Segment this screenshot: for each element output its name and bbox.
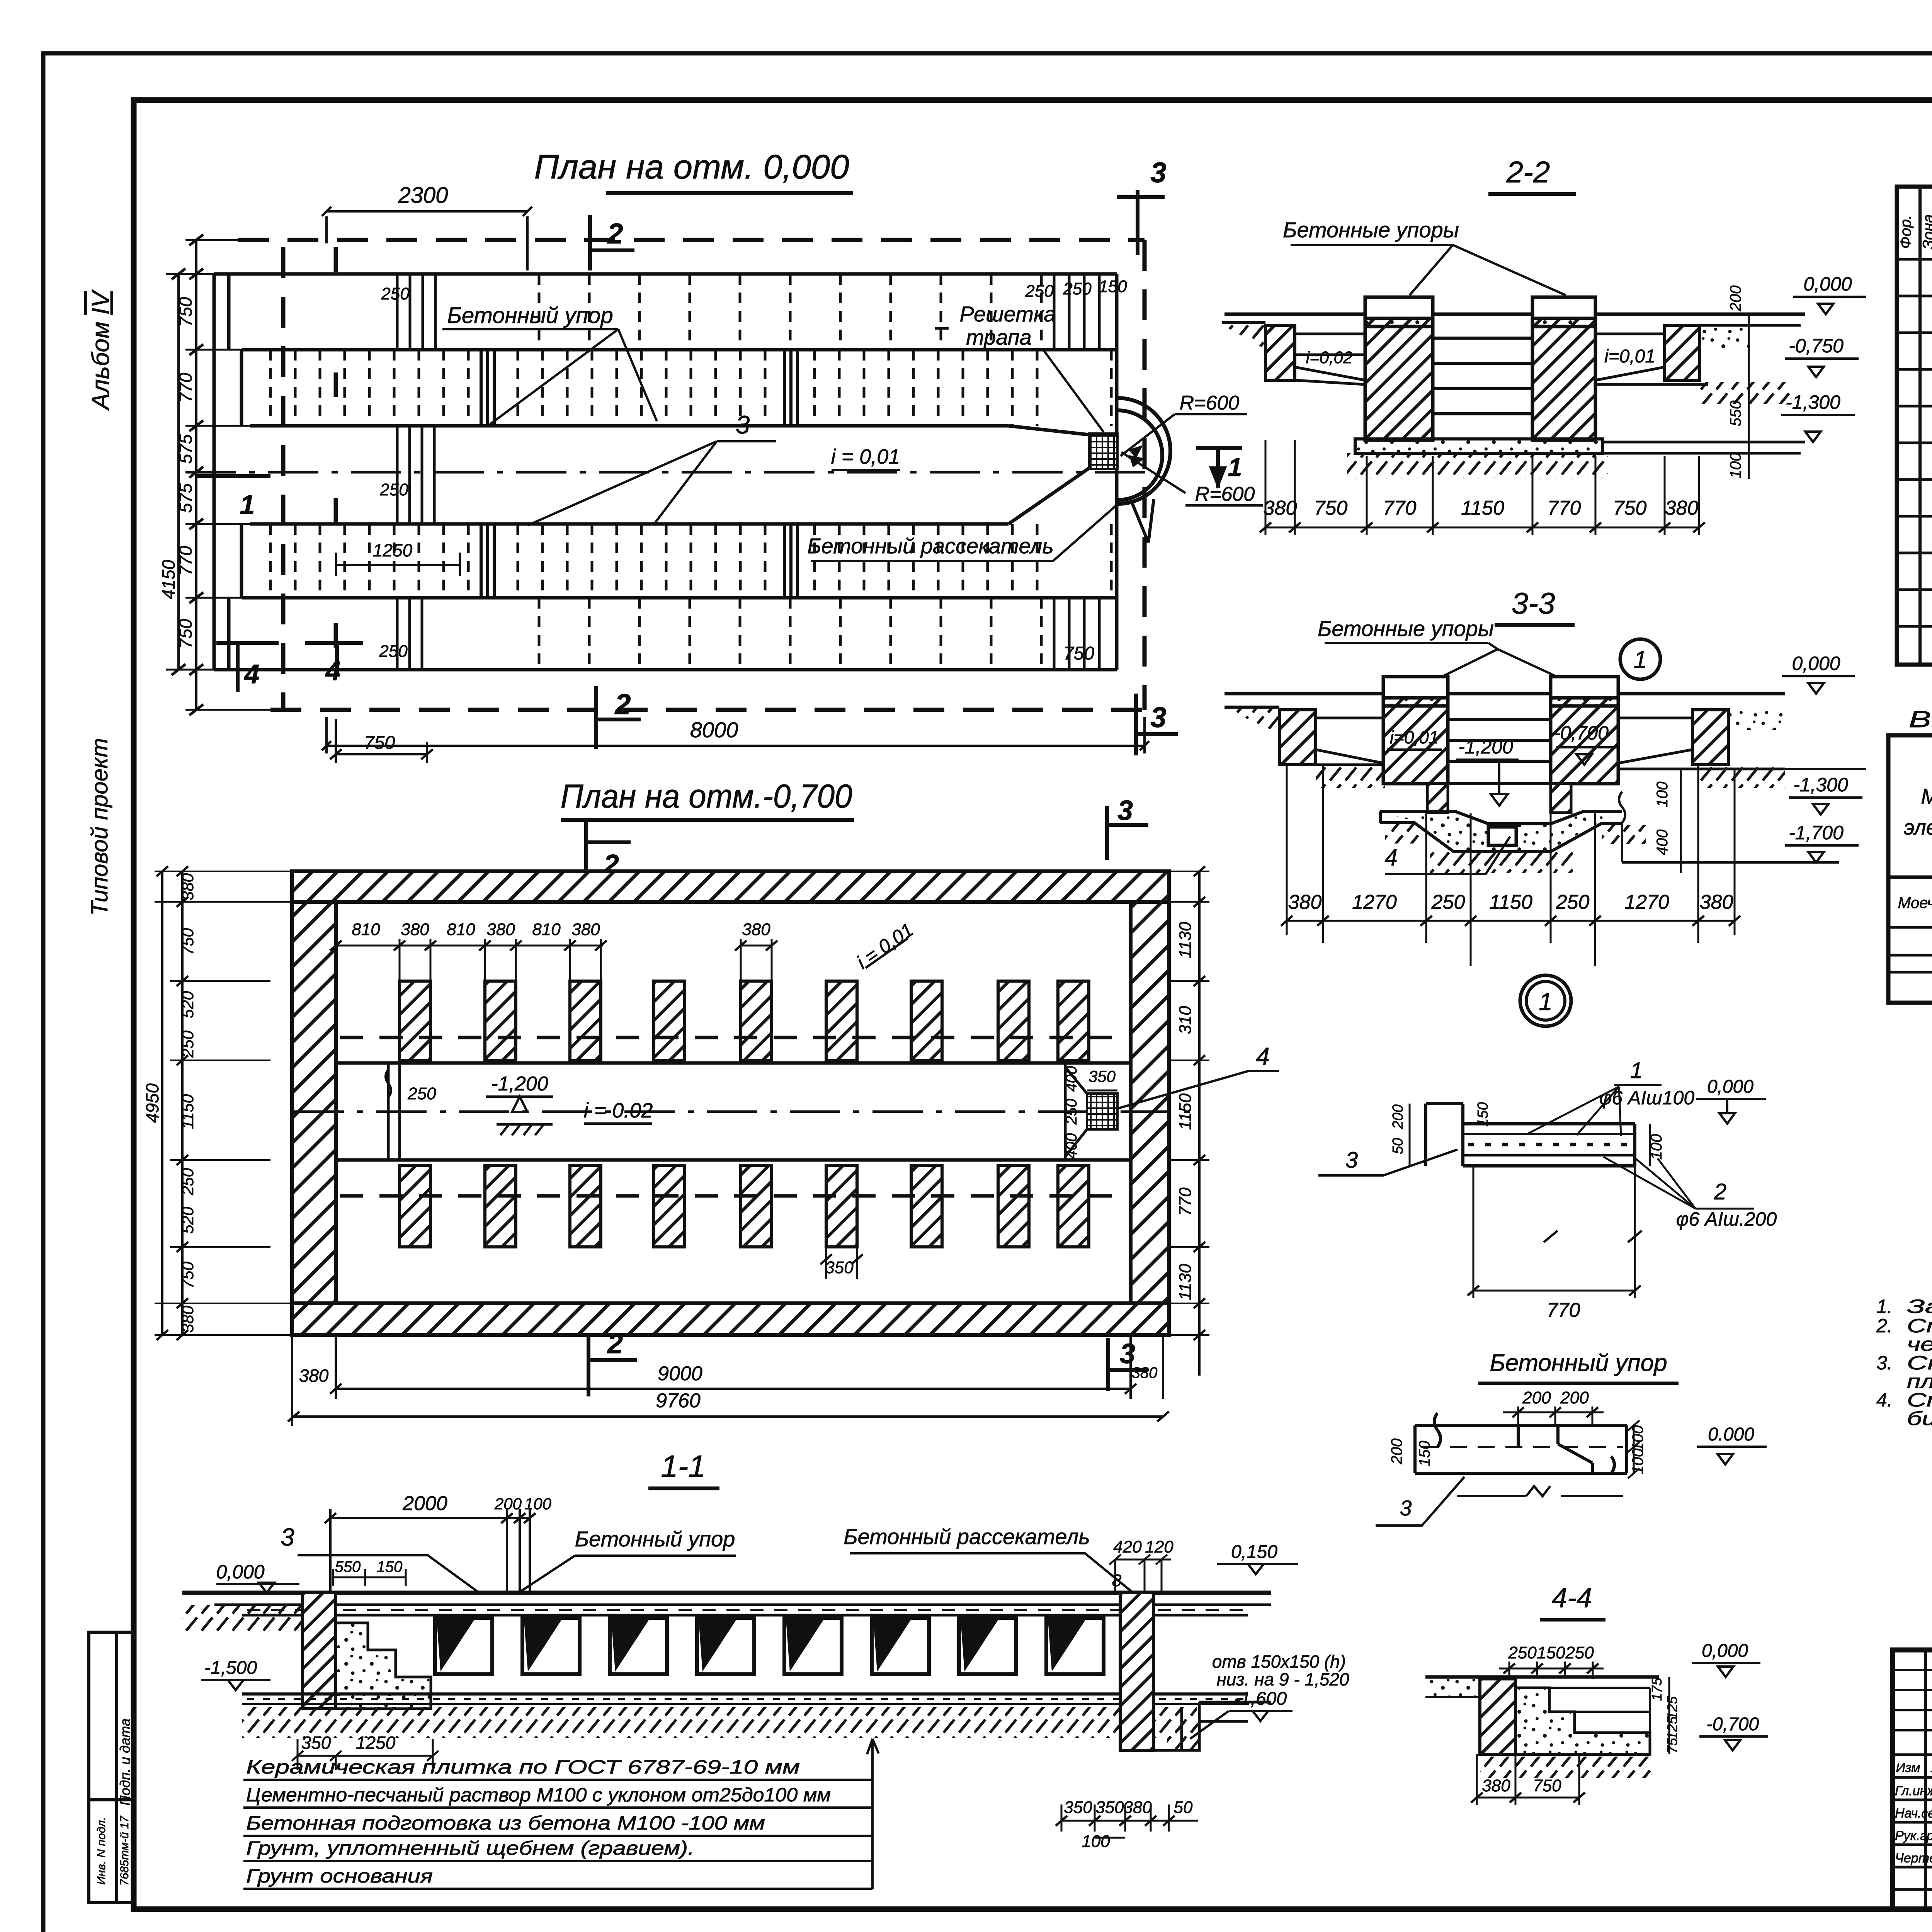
svg-text:810: 810 (447, 920, 475, 939)
upor dims 200 200 (1503, 1406, 1604, 1425)
plan1 funnel to grate (1009, 426, 1089, 524)
svg-text:Марка: Марка (1921, 784, 1932, 808)
svg-text:3: 3 (281, 1523, 294, 1551)
svg-text:Бетонный упор: Бетонный упор (575, 1527, 735, 1551)
svg-text:0,000: 0,000 (1702, 1641, 1748, 1661)
svg-text:1: 1 (1228, 453, 1242, 481)
sec22 left pier hatched (1365, 297, 1595, 440)
svg-text:2: 2 (1714, 1179, 1726, 1204)
svg-text:1.: 1. (1876, 1296, 1893, 1317)
sec22 right floor strip (1595, 334, 1708, 384)
plan2 top dim line (330, 939, 777, 981)
svg-text:750: 750 (1063, 643, 1094, 664)
plan1 brick joints (270, 274, 1111, 670)
plan1 concrete stop triple lines (481, 350, 798, 598)
sec44 bottom dims 380 750 (1471, 1754, 1585, 1805)
plan2 section mark 2 top (586, 806, 1148, 881)
svg-text:200: 200 (1522, 1388, 1551, 1407)
svg-text:150: 150 (1416, 1441, 1433, 1467)
sec44 wall hatched (1480, 1679, 1515, 1754)
svg-text:4.: 4. (1876, 1389, 1893, 1411)
svg-text:150: 150 (1537, 1643, 1565, 1662)
det1 dims 200 50 left (1409, 1104, 1411, 1166)
svg-text:1: 1 (240, 490, 255, 520)
plan1 section mark 2 top (197, 190, 1178, 755)
svg-text:Типовой проект: Типовой проект (87, 738, 112, 916)
svg-text:350: 350 (825, 1258, 854, 1277)
plan1 section mark 3 bottom (1136, 694, 1178, 755)
svg-text:-1,500: -1,500 (204, 1658, 257, 1678)
plan2 pier axis dashed lines (340, 1036, 1128, 1039)
plan1 drain grate (1089, 434, 1117, 469)
svg-text:-1,700: -1,700 (1789, 822, 1844, 844)
svg-text:R=600: R=600 (1195, 483, 1255, 505)
svg-text:380: 380 (1700, 891, 1733, 913)
plan2 section marks bottom (588, 1335, 1148, 1396)
sec11 right wall hatched (1120, 1593, 1153, 1750)
svg-text:380: 380 (179, 873, 197, 900)
svg-text:Выборка стали на один: Выборка стали на один элемент, кг (1909, 706, 1932, 732)
sec44 bottom line + soil (1480, 1753, 1650, 1756)
svg-text:250: 250 (1431, 891, 1465, 913)
svg-text:Фор.: Фор. (1897, 215, 1914, 248)
sec11 slab lines (182, 1591, 1271, 1595)
svg-text:380: 380 (1132, 1364, 1158, 1381)
sec22 right wall hatched (1665, 325, 1700, 380)
sec22 left wall hatched (1265, 325, 1295, 380)
sec33 floor line (1225, 692, 1785, 696)
svg-text:1250: 1250 (373, 540, 413, 560)
spec table frame (1897, 187, 1932, 665)
plan2 channel left break (388, 1063, 400, 1160)
plan2 label 4 leader (1119, 1071, 1279, 1108)
sec33 pit side walls (1427, 784, 1448, 813)
svg-text:350: 350 (1064, 1798, 1092, 1817)
plan2 ground symbol (497, 1124, 553, 1135)
svg-text:3: 3 (1345, 1148, 1358, 1173)
svg-text:250: 250 (179, 1030, 197, 1058)
titleblock left grid verticals (1925, 1650, 1932, 1909)
svg-text:отв 150х150 (h): отв 150х150 (h) (1212, 1651, 1346, 1672)
upor bottom break line (1457, 1486, 1623, 1496)
svg-text:-0,700: -0,700 (1554, 722, 1609, 744)
plan2 bottom dim 9000 (288, 1335, 1199, 1426)
svg-text:100: 100 (1727, 453, 1744, 479)
svg-text:Чертежн: Чертежн (1895, 1851, 1932, 1866)
plan1 section mark 1 left (197, 474, 270, 478)
svg-text:битумом за 2 раза.: битумом за 2 раза. (1907, 1408, 1932, 1429)
svg-text:770: 770 (175, 372, 196, 402)
svg-text:-1,200: -1,200 (491, 1073, 548, 1095)
svg-text:1: 1 (1539, 988, 1553, 1015)
sec11 right pit (1153, 1702, 1271, 1750)
svg-text:250: 250 (1556, 891, 1590, 913)
svg-text:750: 750 (1314, 497, 1348, 519)
svg-text:200: 200 (1388, 1439, 1405, 1465)
svg-text:250: 250 (1063, 279, 1092, 298)
svg-text:100: 100 (1082, 1832, 1110, 1851)
svg-text:250: 250 (1025, 282, 1054, 301)
upor dims left (1412, 1425, 1438, 1473)
sec22 ground left (1222, 321, 1265, 324)
sec22 foundation slab (1355, 439, 1603, 453)
svg-text:9000: 9000 (658, 1362, 702, 1385)
svg-text:Грунт основания: Грунт основания (246, 1865, 433, 1887)
sec22 right dim verticals (1748, 314, 1750, 479)
svg-text:770: 770 (1547, 1299, 1580, 1321)
svg-text:4150: 4150 (158, 560, 179, 599)
svg-text:2000: 2000 (402, 1492, 447, 1515)
svg-text:8000: 8000 (690, 718, 738, 742)
sec44 stepped concrete (1515, 1688, 1650, 1754)
svg-text:9760: 9760 (656, 1389, 701, 1412)
det1 dim 770 (1468, 1166, 1642, 1298)
svg-text:-1,300: -1,300 (1786, 391, 1840, 413)
svg-text:150: 150 (377, 1558, 403, 1575)
svg-text:4: 4 (1384, 845, 1397, 871)
svg-text:2: 2 (606, 218, 623, 250)
sec33 mid floor strips (1316, 718, 1785, 769)
svg-text:7685тм-й 17: 7685тм-й 17 (118, 1816, 131, 1886)
plan1 splitter wedge (1130, 498, 1154, 543)
svg-text:380: 380 (401, 920, 429, 939)
svg-text:575: 575 (175, 483, 196, 513)
svg-text:4: 4 (244, 659, 260, 689)
det1 left lip (1426, 1104, 1635, 1166)
svg-text:250: 250 (179, 1168, 197, 1196)
svg-text:элемента: элемента (1904, 815, 1932, 839)
plan2 channel center line (294, 1111, 1198, 1113)
plan2 section mark 3 top (1107, 806, 1148, 860)
sec22 channel floor layers (1433, 338, 1532, 439)
sec33 right pier hatched (1551, 677, 1618, 784)
sec11 duct openings with shadow wedges (435, 1618, 492, 1674)
svg-text:350: 350 (301, 1733, 331, 1753)
titleblock frame (1893, 1650, 1932, 1909)
svg-text:низ. на 9 - 1,520: низ. на 9 - 1,520 (1216, 1669, 1349, 1689)
svg-text:250: 250 (1565, 1643, 1594, 1662)
svg-text:Бетонный рассекатель: Бетонный рассекатель (844, 1524, 1090, 1549)
svg-text:За отм.0,000принят уровень: За отм.0,000принят уровень чистого пола … (1907, 1296, 1932, 1317)
svg-text:-0,700: -0,700 (1706, 1714, 1759, 1735)
plan2 left dim chain (155, 866, 294, 1340)
svg-text:Инв. N подл.: Инв. N подл. (95, 1817, 108, 1884)
svg-text:Грунт, уплотненный щебнем (гра: Грунт, уплотненный щебнем (гравием). (246, 1837, 694, 1859)
sec22 floor line 0.000 (1225, 313, 1805, 316)
svg-text:50: 50 (1390, 1138, 1406, 1154)
plan1 dashed building outline (238, 238, 1145, 242)
svg-text:200: 200 (1727, 286, 1744, 312)
svg-text:125: 125 (1664, 1716, 1680, 1740)
svg-text:2-2: 2-2 (1506, 155, 1550, 189)
svg-text:4950: 4950 (142, 1083, 162, 1123)
svg-text:Бетонная подготовка из бетона: Бетонная подготовка из бетона М100 -100 … (246, 1812, 765, 1834)
svg-text:3: 3 (736, 410, 750, 439)
svg-text:i=0,02: i=0,02 (1306, 348, 1352, 367)
plan2 outer wall ring hatched (292, 871, 1169, 1335)
svg-text:380: 380 (179, 1305, 197, 1333)
plan1 dim lines (322, 207, 1149, 763)
svg-text:0.000: 0.000 (1708, 1424, 1754, 1445)
svg-text:250: 250 (407, 1084, 436, 1103)
svg-text:380: 380 (1482, 1776, 1510, 1795)
sec11 ground left (182, 1605, 303, 1632)
svg-text:Бетонный упор: Бетонный упор (447, 303, 613, 328)
svg-text:380: 380 (1665, 497, 1699, 519)
svg-text:3: 3 (1117, 795, 1133, 826)
titleblock left grid horizontals (1893, 1670, 1932, 1730)
svg-text:План на отм.-0,700: План на отм.-0,700 (561, 778, 852, 815)
plan1 end arcs R600 (1117, 398, 1170, 504)
plan1 section mark 3 top (1117, 190, 1165, 255)
svg-text:175: 175 (1649, 1677, 1665, 1701)
svg-text:50: 50 (1174, 1798, 1193, 1817)
sec22 ground right (1700, 382, 1791, 404)
svg-text:4: 4 (325, 656, 341, 686)
svg-text:3: 3 (1150, 701, 1166, 733)
sec33 left wall hatched (1279, 710, 1316, 765)
svg-text:-0,750: -0,750 (1789, 335, 1844, 357)
svg-text:0,000: 0,000 (1707, 1077, 1753, 1097)
svg-text:1250: 1250 (356, 1733, 396, 1753)
svg-text:380: 380 (1288, 891, 1322, 913)
svg-text:750: 750 (364, 733, 395, 753)
sec33 detail mark circle 1 (1620, 639, 1660, 679)
svg-text:Керамическая плитка по ГОСТ 67: Керамическая плитка по ГОСТ 6787-69-10 м… (246, 1756, 800, 1778)
svg-text:750: 750 (179, 1261, 197, 1289)
svg-text:1-1: 1-1 (661, 1449, 706, 1483)
svg-text:100: 100 (1629, 1425, 1646, 1451)
det1 dim 100 right (1649, 1124, 1651, 1166)
svg-text:520: 520 (179, 1206, 197, 1234)
svg-text:Гл.инжер: Гл.инжер (1895, 1784, 1932, 1798)
sec11 floor bottom lines (242, 1692, 1248, 1696)
svg-text:План на отм. 0,000: План на отм. 0,000 (534, 148, 849, 186)
svg-text:2: 2 (607, 1328, 623, 1359)
svg-text:0,150: 0,150 (1231, 1542, 1277, 1562)
sec33 break symbol right (1619, 792, 1625, 862)
svg-text:150: 150 (1099, 277, 1127, 296)
svg-text:400: 400 (1654, 830, 1671, 855)
svg-text:2300: 2300 (398, 183, 448, 208)
svg-text:770: 770 (1176, 1187, 1195, 1216)
sec22 bottom dim chain (1260, 440, 1705, 535)
sec44 right rotated dims (1668, 1677, 1670, 1754)
svg-text:125: 125 (1664, 1696, 1680, 1719)
svg-text:φ6 АIш.200: φ6 АIш.200 (1676, 1208, 1777, 1230)
sec44 top dims 250 150 250 (1499, 1662, 1604, 1679)
svg-text:100: 100 (1629, 1449, 1646, 1475)
svg-text:750: 750 (175, 619, 196, 648)
plan2 channel walls (336, 1063, 1131, 1160)
svg-text:Нач.секс: Нач.секс (1895, 1806, 1932, 1821)
svg-text:100: 100 (524, 1495, 552, 1513)
plan2 pier row top (hatched) (400, 981, 1089, 1060)
svg-text:i=0,01: i=0,01 (1604, 346, 1655, 367)
plan1 left dim chain (166, 235, 270, 715)
plan1 center line (185, 471, 1159, 474)
svg-text:380: 380 (299, 1366, 329, 1386)
svg-text:1130: 1130 (1176, 1264, 1195, 1300)
svg-text:1130: 1130 (1176, 922, 1195, 958)
svg-text:3-3: 3-3 (1512, 586, 1555, 620)
svg-text:550: 550 (1727, 401, 1744, 427)
plan1 wall band lines (214, 272, 1117, 276)
plan2 grate and funnel (1087, 1094, 1117, 1129)
svg-text:1150: 1150 (179, 1094, 197, 1129)
svg-text:Изм: Изм (1896, 1760, 1920, 1775)
svg-text:350: 350 (1095, 1798, 1124, 1817)
svg-text:810: 810 (532, 920, 561, 939)
svg-text:310: 310 (1176, 1006, 1195, 1034)
svg-text:350: 350 (1088, 1067, 1116, 1085)
svg-text:750: 750 (1613, 497, 1647, 519)
plan2 right dim chain (1171, 866, 1209, 1340)
svg-text:1150: 1150 (1176, 1093, 1195, 1130)
svg-text:250: 250 (381, 284, 410, 303)
sec44 slab top (1425, 1675, 1659, 1679)
svg-text:250: 250 (379, 642, 408, 661)
svg-text:Рук.гр.: Рук.гр. (1895, 1828, 1932, 1843)
svg-text:Бетонный рассекатель: Бетонный рассекатель (807, 534, 1054, 558)
svg-text:1270: 1270 (1352, 891, 1397, 913)
detail ring mark 1 (1520, 975, 1571, 1026)
svg-text:-1,600: -1,600 (1234, 1689, 1287, 1709)
svg-text:400: 400 (1063, 1133, 1080, 1159)
plan2 pier row bottom (hatched) (400, 1165, 1089, 1247)
plan1 section marks 4 (216, 643, 363, 692)
svg-text:3: 3 (1150, 156, 1166, 189)
svg-text:трапа: трапа (966, 325, 1032, 349)
svg-text:810: 810 (352, 920, 380, 939)
sec11 soil hatch below (242, 1707, 1197, 1738)
svg-text:750: 750 (179, 928, 197, 955)
svg-text:100: 100 (1654, 782, 1671, 808)
svg-text:4-4: 4-4 (1552, 1583, 1592, 1614)
sec22 lower ground line right (1603, 442, 1805, 453)
svg-text:4: 4 (1256, 1043, 1270, 1070)
sec22 soil under slab (1347, 453, 1608, 478)
sec33 left pier hatched (1383, 677, 1618, 784)
svg-text:250: 250 (1063, 1099, 1080, 1125)
sec11 stepped foundation (336, 1623, 431, 1709)
upor dims right 100 100 (1628, 1420, 1639, 1478)
left stamp table (89, 1632, 134, 1903)
svg-text:0,000: 0,000 (1792, 653, 1840, 674)
svg-text:3: 3 (1400, 1496, 1412, 1520)
svg-text:-1,300: -1,300 (1793, 774, 1848, 796)
sec33 channel layers (1448, 719, 1551, 784)
svg-text:-1,200: -1,200 (1458, 736, 1513, 758)
svg-text:420: 420 (1113, 1537, 1142, 1556)
plan1 left joint clusters (397, 274, 1099, 670)
svg-text:Бетонный упор: Бетонный упор (1490, 1350, 1667, 1376)
svg-text:400: 400 (1063, 1066, 1080, 1092)
svg-text:380: 380 (486, 920, 515, 939)
sec11 left wall hatched (303, 1593, 336, 1709)
plan1 section mark 1 right (1196, 448, 1242, 488)
sec33 soil under pit (1430, 852, 1573, 873)
svg-text:380: 380 (1264, 497, 1297, 519)
svg-text:Моечная канава: Моечная канава (1898, 895, 1932, 912)
sec22 left floor strip (1295, 334, 1365, 384)
svg-text:Бетонные упоры: Бетонные упоры (1283, 218, 1459, 242)
upor bar (1415, 1413, 1627, 1473)
plan1 section mark 2 bottom (596, 686, 641, 749)
svg-text:200: 200 (1390, 1104, 1406, 1129)
svg-text:3.: 3. (1876, 1352, 1893, 1374)
svg-text:0,000: 0,000 (1803, 273, 1852, 295)
sec22 right pier hatched (1532, 297, 1595, 440)
svg-text:2.: 2. (1876, 1315, 1893, 1337)
svg-text:Зона: Зона (1920, 214, 1932, 249)
svg-text:0,000: 0,000 (216, 1561, 264, 1583)
svg-text:Бетонные упоры: Бетонные упоры (1318, 616, 1494, 641)
svg-text:1: 1 (1630, 1058, 1643, 1083)
svg-text:250: 250 (379, 480, 408, 499)
svg-text:Подп. и дата: Подп. и дата (117, 1718, 133, 1805)
svg-text:770: 770 (1383, 497, 1417, 519)
svg-text:770: 770 (1548, 497, 1581, 519)
svg-text:1: 1 (1634, 646, 1647, 673)
svg-text:R=600: R=600 (1180, 392, 1240, 414)
sec33 pit floor slab (1380, 811, 1622, 852)
svg-text:550: 550 (335, 1558, 361, 1575)
svg-text:Альбом IV: Альбом IV (87, 289, 114, 411)
svg-text:380: 380 (742, 920, 770, 939)
svg-text:Цементно-песчаный раствор М100: Цементно-песчаный раствор М100 с уклоном… (246, 1784, 831, 1806)
svg-text:i = 0,01: i = 0,01 (831, 445, 900, 468)
svg-text:250: 250 (1508, 1643, 1537, 1662)
svg-text:1150: 1150 (1461, 497, 1504, 519)
sec33 bottom dim chain (1281, 766, 1740, 966)
vyborka frame (1888, 735, 1932, 1003)
svg-text:100: 100 (1648, 1134, 1665, 1160)
svg-text:1270: 1270 (1624, 891, 1669, 913)
svg-text:750: 750 (175, 297, 196, 327)
svg-text:520: 520 (179, 991, 197, 1018)
svg-text:75: 75 (1664, 1738, 1680, 1753)
svg-text:Решетка: Решетка (959, 302, 1056, 326)
svg-text:i = 0.02: i = 0.02 (584, 1099, 653, 1122)
sec33 right wall hatched (1692, 710, 1728, 765)
svg-text:1150: 1150 (1489, 891, 1532, 913)
svg-text:750: 750 (1533, 1776, 1561, 1795)
svg-text:200: 200 (1560, 1388, 1589, 1407)
det1 slab (1426, 1104, 1635, 1166)
sec11 top dims (325, 1509, 536, 1593)
svg-text:2: 2 (614, 688, 631, 720)
svg-text:380: 380 (571, 920, 600, 939)
svg-text:8: 8 (1112, 1571, 1122, 1590)
svg-text:i=0,01: i=0,01 (1390, 727, 1439, 747)
svg-text:380: 380 (1123, 1798, 1152, 1817)
svg-text:120: 120 (1145, 1537, 1173, 1556)
svg-text:575: 575 (175, 434, 196, 464)
svg-text:150: 150 (1475, 1102, 1491, 1126)
svg-text:200: 200 (494, 1495, 522, 1513)
sec33 drain channel block (1488, 827, 1516, 845)
sec11 callout leader (867, 1739, 879, 1889)
